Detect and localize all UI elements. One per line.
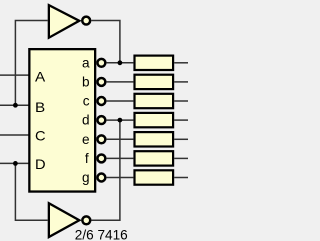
wire R1 out: [174, 62, 188, 64]
wire d to R4: [107, 119, 134, 121]
junction node a: [118, 60, 123, 65]
wire c to R3: [107, 100, 134, 102]
output bubble pin g: [97, 174, 105, 182]
resistor R7: [135, 170, 174, 184]
svg-text:c: c: [83, 94, 90, 109]
svg-text:a: a: [82, 55, 90, 70]
svg-text:D: D: [35, 157, 46, 172]
wire input A: [0, 74, 29, 76]
wire a to R1: [107, 62, 134, 64]
inverter U1 triangle: [49, 5, 79, 38]
wire bottom inverter output to node d: [92, 120, 120, 220]
wire B to top inverter input: [15, 21, 47, 106]
wire R3 out: [174, 100, 188, 102]
wire b to R2: [107, 81, 134, 83]
wire R5 out: [174, 138, 188, 140]
wire top inverter output to node a: [91, 21, 120, 63]
svg-text:2/6 7416: 2/6 7416: [75, 228, 128, 241]
decoder U2 body: [29, 49, 95, 191]
svg-text:B: B: [35, 100, 45, 115]
resistor R3: [135, 94, 174, 108]
wire R7 out: [174, 177, 188, 179]
output bubble pin a: [97, 59, 105, 67]
svg-text:d: d: [82, 113, 90, 128]
wire g to R7: [107, 177, 134, 179]
inverter U3 triangle: [49, 203, 79, 237]
wire R6 out: [174, 157, 188, 159]
resistor R6: [135, 151, 174, 165]
resistor R1: [135, 56, 174, 70]
wire D to bottom inverter input: [15, 163, 47, 220]
junction node B: [13, 103, 18, 108]
resistor R2: [135, 75, 174, 89]
output bubble pin f: [97, 154, 105, 162]
output bubble pin d: [97, 116, 105, 124]
svg-text:e: e: [82, 132, 90, 147]
inverter U1 bubble: [82, 17, 90, 25]
resistor R5: [135, 132, 174, 146]
wire input C: [0, 134, 29, 136]
inverter U3 bubble: [82, 216, 90, 224]
output bubble pin b: [97, 78, 105, 86]
wire input D: [0, 162, 29, 164]
svg-text:A: A: [35, 70, 46, 85]
wire e to R5: [107, 138, 134, 140]
output bubble pin c: [97, 97, 105, 105]
resistor R4: [135, 113, 174, 127]
wire f to R6: [107, 157, 134, 159]
svg-text:b: b: [82, 74, 90, 89]
junction node D: [13, 161, 18, 166]
wire input B: [0, 104, 29, 106]
svg-text:g: g: [82, 170, 90, 185]
junction node d: [118, 118, 123, 123]
wire R2 out: [174, 81, 188, 83]
svg-text:f: f: [85, 151, 89, 166]
wire R4 out: [174, 119, 188, 121]
svg-text:C: C: [35, 129, 46, 144]
output bubble pin e: [97, 135, 105, 143]
